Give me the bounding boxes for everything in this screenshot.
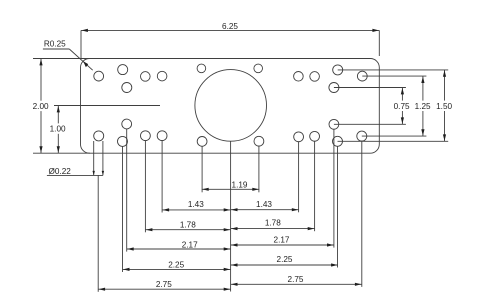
svg-text:2.25: 2.25 <box>168 261 184 270</box>
dimension 1.43 right <box>231 200 299 211</box>
hole R2 <box>333 65 343 75</box>
svg-text:1.00: 1.00 <box>50 125 66 134</box>
svg-text:1.25: 1.25 <box>415 102 431 111</box>
svg-text:1.43: 1.43 <box>188 200 204 209</box>
svg-text:0.75: 0.75 <box>394 102 410 111</box>
hole L8 <box>118 136 128 146</box>
hole L6 <box>197 64 206 73</box>
extension from hole L8 <box>122 146 124 272</box>
hole R12 <box>254 136 264 146</box>
hole L1 <box>94 71 104 81</box>
hole R9 <box>329 119 339 129</box>
svg-text:R0.25: R0.25 <box>44 39 66 48</box>
svg-text:2.75: 2.75 <box>288 275 304 284</box>
plate outline 6.25 x 2.00 rounded rect <box>81 59 380 154</box>
extension from hole L11 <box>161 140 163 212</box>
svg-text:1.50: 1.50 <box>436 102 452 111</box>
hole L5 <box>157 71 167 81</box>
extension from hole R10 <box>314 141 316 231</box>
center extension line from big circle bottom <box>230 141 232 291</box>
hole L4 <box>141 72 151 82</box>
hole R6 <box>254 64 263 73</box>
hole L9 <box>122 119 132 129</box>
hole R8 <box>333 136 343 146</box>
dimension 6.25 top <box>81 22 379 58</box>
hole R3 <box>329 83 339 93</box>
dimension 1.19 <box>202 181 259 191</box>
hole R7 <box>357 131 367 141</box>
dimension 1.25 right <box>362 76 433 136</box>
svg-text:2.17: 2.17 <box>182 241 198 250</box>
svg-text:6.25: 6.25 <box>222 22 238 31</box>
hole L10 <box>141 131 151 141</box>
extension from hole R9 <box>333 129 335 248</box>
hole R4 <box>310 72 320 82</box>
extension from hole R12 <box>258 146 260 193</box>
svg-text:Ø0.22: Ø0.22 <box>49 167 72 176</box>
extension from hole L9 <box>126 129 128 252</box>
dimension 0.75 right <box>334 88 412 125</box>
svg-text:1.78: 1.78 <box>265 218 281 227</box>
hole R10 <box>310 131 320 141</box>
svg-text:1.78: 1.78 <box>180 221 196 230</box>
svg-text:2.75: 2.75 <box>156 280 172 289</box>
hole L7 <box>94 131 104 141</box>
svg-text:2.25: 2.25 <box>277 255 293 264</box>
dimension 1.78 left <box>146 221 231 232</box>
extension from hole R11 <box>298 141 300 212</box>
svg-text:1.19: 1.19 <box>232 181 248 190</box>
hole L12 <box>197 137 207 147</box>
hole L2 <box>118 65 128 75</box>
svg-text:2.00: 2.00 <box>33 102 49 111</box>
dimension 2.17 left <box>127 241 231 251</box>
hole R11 <box>294 132 304 142</box>
extension from hole R7 <box>361 141 363 287</box>
dimension 2.25 left <box>123 261 231 271</box>
dimension 2.00 left <box>30 59 90 154</box>
large center hole <box>195 70 267 142</box>
dimension 2.25 right <box>231 255 338 267</box>
extension from hole L10 <box>144 140 146 232</box>
hole L11 <box>157 131 167 141</box>
dimension 1.00 left <box>47 106 160 154</box>
dimension 2.17 right <box>231 236 334 247</box>
svg-text:2.17: 2.17 <box>274 236 290 245</box>
dimension 1.43 left <box>162 200 230 211</box>
hole R1 <box>357 71 367 81</box>
extension from hole L12 <box>201 146 203 192</box>
extension from hole L7 via leader <box>97 175 99 291</box>
hole L3 <box>122 83 132 93</box>
leader R0.25 corner radius <box>43 39 93 70</box>
dimension 2.75 left <box>98 280 230 291</box>
dimension 2.75 right <box>231 275 362 286</box>
dimension 1.50 right <box>338 70 455 141</box>
hole R5 <box>294 72 304 82</box>
leader diameter 0.22 <box>47 141 104 176</box>
dimension 1.78 right <box>231 218 315 230</box>
svg-text:1.43: 1.43 <box>256 200 272 209</box>
extension from hole R8 <box>337 146 339 268</box>
